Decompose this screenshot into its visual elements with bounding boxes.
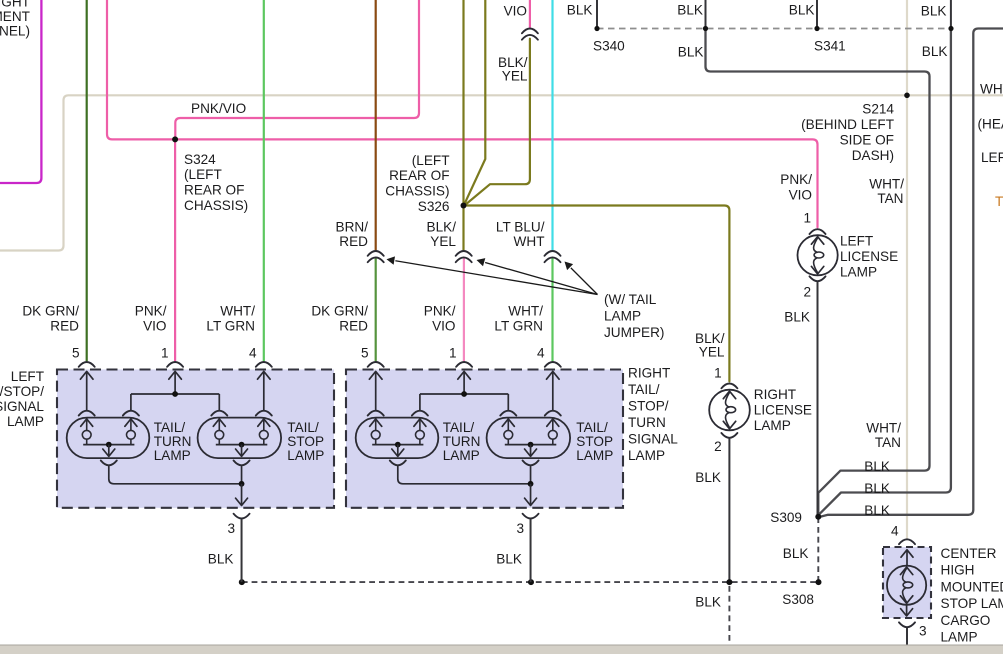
svg-text:CHASSIS): CHASSIS) xyxy=(184,198,248,213)
svg-text:PANEL): PANEL) xyxy=(0,24,30,39)
svg-text:BLK: BLK xyxy=(784,309,810,324)
svg-text:LEFT: LEFT xyxy=(840,234,873,249)
svg-text:RED: RED xyxy=(339,234,368,249)
svg-text:1: 1 xyxy=(449,346,457,361)
svg-text:LICENSE: LICENSE xyxy=(840,249,898,264)
svg-text:PNK/: PNK/ xyxy=(424,304,456,319)
svg-text:WHT/: WHT/ xyxy=(508,304,543,319)
svg-text:RIGHT: RIGHT xyxy=(628,366,670,381)
svg-text:DASH): DASH) xyxy=(852,148,894,163)
svg-text:5: 5 xyxy=(361,346,369,361)
svg-text:BLK: BLK xyxy=(695,470,721,485)
svg-text:BLK: BLK xyxy=(864,481,890,496)
svg-text:TAIL/: TAIL/ xyxy=(154,420,186,435)
svg-text:BLK: BLK xyxy=(864,503,890,518)
svg-text:WHT/: WHT/ xyxy=(980,82,1003,97)
svg-text:VIO: VIO xyxy=(432,319,455,334)
svg-text:CENTER: CENTER xyxy=(941,546,997,561)
svg-text:TURN: TURN xyxy=(443,434,481,449)
svg-text:BLK: BLK xyxy=(567,3,593,18)
svg-text:BLK/: BLK/ xyxy=(427,220,457,235)
svg-text:BLK: BLK xyxy=(677,3,703,18)
svg-text:LAMP: LAMP xyxy=(754,418,791,433)
svg-text:INSTRUMENT: INSTRUMENT xyxy=(0,9,30,24)
svg-text:TURN SIGNAL: TURN SIGNAL xyxy=(0,399,44,414)
svg-text:4: 4 xyxy=(891,524,899,539)
svg-text:BLK: BLK xyxy=(864,459,890,474)
svg-text:DK GRN/: DK GRN/ xyxy=(311,304,368,319)
svg-text:TAN: TAN xyxy=(877,191,903,206)
svg-text:BLK: BLK xyxy=(496,552,522,567)
svg-text:CHASSIS): CHASSIS) xyxy=(385,184,449,199)
svg-text:LEFT: LEFT xyxy=(11,369,44,384)
svg-text:3: 3 xyxy=(516,521,524,536)
svg-text:VIO: VIO xyxy=(789,188,812,203)
svg-text:BLK: BLK xyxy=(695,594,721,609)
svg-text:LAMP: LAMP xyxy=(576,448,613,463)
svg-text:BLK: BLK xyxy=(922,44,948,59)
svg-text:BLK: BLK xyxy=(208,552,234,567)
svg-text:S214: S214 xyxy=(862,102,894,117)
svg-text:LAMP: LAMP xyxy=(941,630,978,645)
svg-text:TAIL/: TAIL/ xyxy=(443,420,475,435)
svg-text:LEFT: LEFT xyxy=(981,150,1003,165)
svg-text:SIDE OF: SIDE OF xyxy=(840,133,894,148)
svg-text:BLK: BLK xyxy=(783,546,809,561)
svg-text:WHT/: WHT/ xyxy=(869,177,904,192)
svg-text:SIGNAL: SIGNAL xyxy=(628,432,678,447)
svg-text:4: 4 xyxy=(537,346,545,361)
svg-text:(BEHIND LEFT: (BEHIND LEFT xyxy=(801,117,894,132)
svg-text:LICENSE: LICENSE xyxy=(754,403,812,418)
svg-text:3: 3 xyxy=(227,521,235,536)
svg-text:BLK: BLK xyxy=(921,4,947,19)
svg-text:1: 1 xyxy=(161,346,169,361)
svg-text:VIO: VIO xyxy=(143,319,166,334)
svg-text:S341: S341 xyxy=(814,39,846,54)
svg-text:(HEATED: (HEATED xyxy=(978,117,1003,132)
svg-text:LAMP: LAMP xyxy=(287,448,324,463)
svg-text:STOP/: STOP/ xyxy=(628,399,669,414)
svg-text:STOP: STOP xyxy=(576,434,613,449)
svg-text:LT GRN: LT GRN xyxy=(494,319,543,334)
svg-text:S340: S340 xyxy=(593,39,625,54)
svg-text:LAMP: LAMP xyxy=(628,448,665,463)
svg-text:2: 2 xyxy=(803,284,811,299)
svg-text:LAMP: LAMP xyxy=(7,414,44,429)
svg-text:TAN: TAN xyxy=(875,435,901,450)
svg-text:PNK/: PNK/ xyxy=(780,172,812,187)
svg-text:(LEFT: (LEFT xyxy=(412,153,450,168)
svg-text:4: 4 xyxy=(249,346,257,361)
svg-text:RED: RED xyxy=(50,319,79,334)
svg-text:DK GRN/: DK GRN/ xyxy=(22,304,79,319)
svg-text:(W/ TAIL: (W/ TAIL xyxy=(604,292,657,307)
svg-text:PNK/: PNK/ xyxy=(135,304,167,319)
svg-text:BLK: BLK xyxy=(678,45,704,60)
svg-text:MOUNTED: MOUNTED xyxy=(941,579,1003,594)
svg-text:TAIL/: TAIL/ xyxy=(287,420,319,435)
svg-text:RED: RED xyxy=(339,319,368,334)
svg-text:LAMP: LAMP xyxy=(840,265,877,280)
svg-text:VIO: VIO xyxy=(504,3,527,18)
svg-text:TURN: TURN xyxy=(154,434,192,449)
svg-text:HIGH: HIGH xyxy=(941,563,975,578)
svg-text:(LEFT: (LEFT xyxy=(184,167,222,182)
svg-text:S308: S308 xyxy=(782,592,814,607)
svg-text:T: T xyxy=(995,194,1003,209)
svg-text:YEL: YEL xyxy=(699,345,725,360)
svg-text:S309: S309 xyxy=(770,510,802,525)
svg-text:S326: S326 xyxy=(418,199,450,214)
svg-text:RIGHT: RIGHT xyxy=(754,387,796,402)
svg-text:LAMP: LAMP xyxy=(443,448,480,463)
svg-text:WHT/: WHT/ xyxy=(866,421,901,436)
svg-text:TAIL/: TAIL/ xyxy=(576,420,608,435)
svg-text:YEL: YEL xyxy=(430,234,456,249)
svg-text:YEL: YEL xyxy=(502,69,528,84)
svg-text:BLK: BLK xyxy=(789,3,815,18)
svg-text:LAMP: LAMP xyxy=(154,448,191,463)
svg-text:TAIL/STOP/: TAIL/STOP/ xyxy=(0,384,44,399)
svg-text:JUMPER): JUMPER) xyxy=(604,325,664,340)
svg-text:WHT/: WHT/ xyxy=(220,304,255,319)
svg-text:LT GRN: LT GRN xyxy=(206,319,255,334)
svg-text:STOP: STOP xyxy=(287,434,324,449)
svg-text:TAIL/: TAIL/ xyxy=(628,382,660,397)
svg-text:TURN: TURN xyxy=(628,415,666,430)
svg-text:BRN/: BRN/ xyxy=(336,220,369,235)
svg-text:1: 1 xyxy=(803,210,811,225)
svg-text:CARGO: CARGO xyxy=(941,613,991,628)
svg-text:REAR OF: REAR OF xyxy=(389,168,449,183)
svg-text:WHT: WHT xyxy=(514,234,545,249)
svg-text:5: 5 xyxy=(72,346,80,361)
svg-text:2: 2 xyxy=(714,439,722,454)
svg-text:1: 1 xyxy=(714,366,722,381)
svg-text:S324: S324 xyxy=(184,152,216,167)
svg-text:STOP LAMP: STOP LAMP xyxy=(941,596,1003,611)
svg-text:3: 3 xyxy=(919,624,927,639)
svg-text:PNK/VIO: PNK/VIO xyxy=(191,101,246,116)
svg-text:REAR OF: REAR OF xyxy=(184,183,244,198)
svg-text:LAMP: LAMP xyxy=(604,309,641,324)
svg-text:LT BLU/: LT BLU/ xyxy=(496,220,545,235)
